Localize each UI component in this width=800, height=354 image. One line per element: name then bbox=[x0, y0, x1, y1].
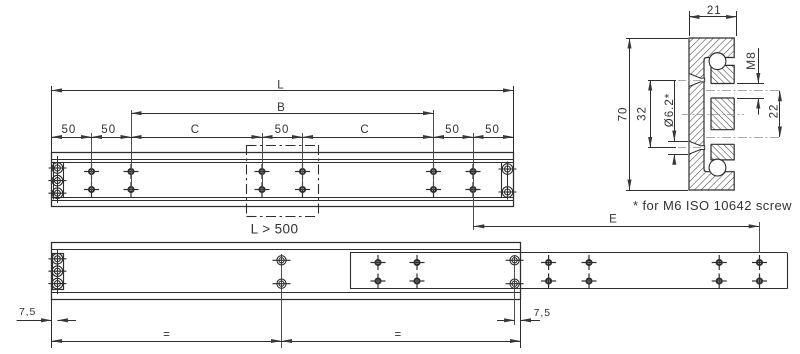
svg-text:L: L bbox=[277, 80, 284, 92]
countersunk hole in wall at y=147.6 bbox=[689, 141, 705, 154]
dimension 7,5 right bbox=[497, 320, 515, 322]
rivet right-end 2 bottom view bbox=[506, 279, 524, 288]
rail outer member top view bbox=[52, 153, 514, 207]
svg-text:32: 32 bbox=[637, 106, 649, 121]
rivet right-end 1 bottom view bbox=[506, 256, 524, 265]
hole inner member col1 row1 bbox=[371, 255, 386, 270]
rivet right 2 top view bbox=[499, 187, 517, 198]
dimension 22 bbox=[779, 91, 781, 137]
hole inner member col2 row2 bbox=[410, 274, 425, 289]
mounting hole col6 row1 top view bbox=[466, 164, 481, 179]
right rivet centerline top view bbox=[507, 162, 509, 200]
rail inner lines top view bbox=[52, 159, 514, 161]
mounting hole col1 row1 top view bbox=[84, 164, 99, 179]
detail box L>500 bbox=[247, 145, 319, 147]
hole inner member col4 row1 bbox=[582, 255, 597, 270]
svg-text:C: C bbox=[191, 124, 200, 136]
svg-text:50: 50 bbox=[275, 124, 290, 136]
ball bearing top bbox=[709, 53, 726, 70]
extension rail end bottom bbox=[520, 300, 522, 349]
outer member section (hatched) bbox=[689, 38, 734, 190]
svg-text:L > 500: L > 500 bbox=[251, 222, 299, 237]
dimension E line bbox=[474, 226, 759, 228]
svg-text:22: 22 bbox=[768, 104, 780, 119]
tapped hole M8 upper in slab bbox=[710, 84, 735, 99]
svg-text:Ø6.2*: Ø6.2* bbox=[664, 93, 676, 127]
dimension 32 bbox=[648, 80, 676, 82]
hole inner member col3 row1 bbox=[541, 255, 556, 270]
extension line col4 bbox=[302, 133, 304, 190]
mounting hole col4 row2 top view bbox=[295, 182, 310, 197]
rivet left 3 top view bbox=[48, 188, 66, 199]
countersunk hole in wall at y=80.0 bbox=[689, 74, 705, 87]
mounting hole col3 row1 top view bbox=[255, 164, 270, 179]
outer rail bottom view bbox=[52, 243, 521, 300]
extension line col6 (E) bbox=[473, 133, 475, 230]
right rivet column line bottom view bbox=[514, 255, 516, 325]
svg-text:21: 21 bbox=[707, 5, 722, 17]
dimension L line bbox=[52, 90, 514, 92]
rivet mid 2 bottom view bbox=[273, 279, 291, 288]
svg-text:7,5: 7,5 bbox=[19, 306, 36, 318]
mounting hole col6 row2 top view bbox=[466, 182, 481, 197]
dimension M8 bbox=[737, 83, 764, 85]
svg-text:E: E bbox=[609, 214, 618, 226]
rivet left 2 top view bbox=[48, 175, 66, 186]
svg-text:50: 50 bbox=[62, 124, 77, 136]
svg-text:50: 50 bbox=[101, 124, 116, 136]
tapped hole lower in slab bbox=[710, 130, 735, 145]
hole inner member col2 row1 bbox=[410, 255, 425, 270]
svg-text:70: 70 bbox=[618, 107, 630, 122]
hole inner member col5 row2 bbox=[712, 274, 727, 289]
hole inner member col3 row2 bbox=[541, 274, 556, 289]
svg-text:* for M6 ISO 10642 screw: * for M6 ISO 10642 screw bbox=[633, 198, 792, 213]
svg-text:C: C bbox=[360, 124, 369, 136]
outer rail inner lines bottom view bbox=[52, 249, 521, 251]
svg-text:50: 50 bbox=[485, 124, 500, 136]
mounting hole col5 row1 top view bbox=[426, 164, 441, 179]
dimension 7,5 left bbox=[17, 320, 52, 322]
hole inner member col6 row2 bbox=[752, 274, 767, 289]
svg-text:=: = bbox=[163, 329, 171, 341]
dimension 21 bbox=[689, 11, 691, 36]
mounting hole col2 row1 top view bbox=[124, 164, 139, 179]
mounting hole col5 row2 top view bbox=[426, 182, 441, 197]
dimension equal line bbox=[52, 341, 521, 343]
extension line right edge bbox=[513, 86, 515, 153]
rivet left 2 bottom view bbox=[48, 266, 66, 277]
rivet left 1 top view bbox=[48, 163, 66, 174]
rivet left 1 bottom view bbox=[48, 253, 66, 264]
dimension chain 50/C line bbox=[52, 137, 514, 139]
inner member slab (hatched) bbox=[710, 61, 734, 160]
rivet right 1 top view bbox=[499, 164, 517, 175]
svg-text:=: = bbox=[394, 329, 402, 341]
mounting hole col2 row2 top view bbox=[124, 182, 139, 197]
extension line left edge bbox=[51, 86, 53, 153]
svg-text:7,5: 7,5 bbox=[534, 307, 551, 319]
centerline M8 hole bbox=[706, 90, 781, 92]
svg-text:B: B bbox=[277, 102, 286, 114]
extension line col2 (B) bbox=[131, 110, 133, 190]
hole inner member col1 row2 bbox=[371, 274, 386, 289]
left rivet box bottom view bbox=[53, 254, 64, 290]
left end cap top view bbox=[63, 163, 65, 198]
rivet left 3 bottom view bbox=[48, 278, 66, 289]
centerline upper wall hole bbox=[678, 80, 707, 82]
hole inner member col6 row1 bbox=[752, 255, 767, 270]
hole inner member col5 row1 bbox=[712, 255, 727, 270]
svg-text:M8: M8 bbox=[744, 51, 758, 70]
right end cap top view bbox=[501, 163, 503, 198]
rivet mid 1 bottom view bbox=[273, 256, 291, 265]
dimension B line bbox=[131, 113, 434, 115]
dimension 70 bbox=[626, 38, 688, 40]
extension left edge bottom bbox=[51, 300, 53, 349]
extension line col1 bbox=[91, 133, 93, 190]
dimension diameter 6.2 bbox=[674, 80, 676, 141]
left rivet centerline top view bbox=[57, 156, 59, 203]
hole inner member col4 row2 bbox=[582, 274, 597, 289]
ball bearing bottom bbox=[709, 159, 726, 176]
centerline lower slab hole bbox=[706, 137, 781, 139]
centerline lower wall hole bbox=[678, 147, 707, 149]
centerline mid section bbox=[682, 114, 744, 116]
extension line col3 bbox=[262, 133, 264, 190]
svg-text:50: 50 bbox=[445, 124, 460, 136]
mounting hole col3 row2 top view bbox=[255, 182, 270, 197]
mid rivet column line bottom view bbox=[281, 254, 283, 348]
extension line col5 (B) bbox=[433, 110, 435, 190]
extension line E right bbox=[759, 222, 761, 253]
left rivet centerline bottom view bbox=[57, 250, 59, 294]
inner member extended rail bbox=[350, 252, 787, 254]
mounting hole col4 row1 top view bbox=[295, 164, 310, 179]
mounting hole col1 row2 top view bbox=[84, 182, 99, 197]
